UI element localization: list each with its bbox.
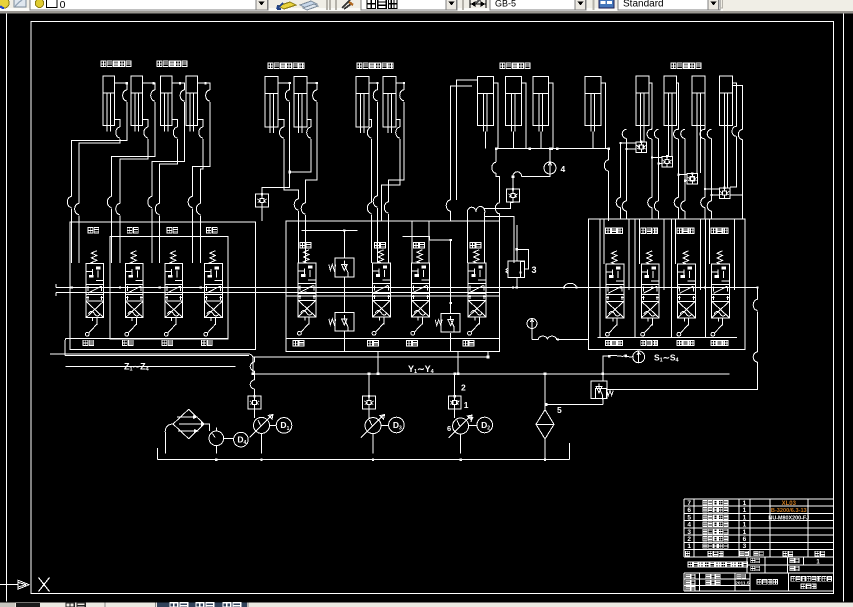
parts row 2 name	[703, 536, 728, 541]
wire	[659, 163, 662, 165]
svg-text:1: 1	[743, 514, 747, 521]
wire	[172, 83, 185, 90]
toolbar light band	[0, 8, 723, 11]
toolbar icon: layer previous	[300, 1, 317, 8]
filter F5	[536, 410, 554, 439]
svg-text:1: 1	[743, 500, 747, 507]
layer combo box	[30, 0, 268, 10]
wire	[499, 214, 501, 263]
pilot check valve CV4	[662, 156, 673, 167]
toolbar separator	[462, 0, 464, 10]
wire	[454, 374, 456, 397]
label group5 clamp cylinder	[500, 63, 530, 69]
wire	[368, 409, 370, 419]
wire	[305, 215, 307, 263]
school name	[791, 577, 832, 582]
label valve V2 bottom	[122, 340, 133, 345]
wire curled drop to pump1 check	[254, 357, 256, 362]
left box lower double line	[50, 353, 249, 355]
wire	[711, 211, 713, 219]
label valve V3 top	[167, 228, 178, 233]
svg-text:6: 6	[687, 507, 691, 514]
cylinder group5 CYL9	[477, 77, 493, 132]
pump P4 fixed	[209, 431, 224, 446]
wire	[78, 216, 80, 264]
wire	[484, 132, 486, 149]
layer combo dropdown arrow	[256, 0, 268, 10]
wire	[278, 83, 290, 90]
wire	[641, 132, 644, 142]
wire	[120, 139, 148, 204]
wire	[191, 209, 193, 264]
wire	[388, 214, 390, 263]
valve V6	[378, 250, 384, 263]
svg-text:4: 4	[244, 440, 247, 446]
wire	[262, 425, 277, 453]
wire	[704, 139, 706, 189]
svg-text:6: 6	[447, 424, 451, 433]
wire	[79, 139, 120, 204]
motor M3 D2	[477, 417, 493, 433]
wire bypass loop	[517, 249, 529, 269]
toolbar icon: table style	[599, 0, 614, 8]
wire	[724, 132, 727, 188]
wire right margin 2	[732, 86, 742, 130]
gauge G6 lower	[527, 319, 537, 329]
svg-text:NU-M80X200-FJ: NU-M80X200-FJ	[768, 515, 809, 521]
svg-text:2: 2	[461, 383, 466, 393]
wire	[521, 83, 526, 149]
label valve V12 top	[711, 228, 728, 233]
svg-text:2011.5: 2011.5	[735, 580, 750, 586]
valve manifold inner box B1a	[110, 237, 228, 339]
wire	[512, 132, 514, 149]
wire hose	[532, 336, 558, 339]
cylinder group2 CYL4	[186, 76, 198, 131]
wire	[711, 139, 713, 202]
wire	[679, 174, 688, 176]
layout tabs	[157, 603, 247, 607]
label valve V5 bottom	[293, 341, 304, 346]
middle box return line	[286, 338, 500, 340]
pilot check valve CV3	[636, 142, 647, 153]
wire	[160, 139, 178, 204]
tab bar nav buttons	[0, 603, 15, 607]
cylinder group3 CYL5	[265, 77, 278, 133]
wire	[651, 158, 653, 198]
cooler arrows	[177, 417, 201, 431]
wire	[546, 398, 603, 404]
svg-text:1: 1	[464, 400, 469, 410]
group5 left port risers	[456, 80, 477, 200]
wire	[111, 209, 113, 264]
toolbar background	[0, 0, 853, 11]
wire	[114, 83, 127, 90]
tank line	[158, 443, 570, 459]
pilot relief valve 3 body	[508, 261, 525, 277]
valve V12	[717, 251, 723, 264]
title block title area	[684, 557, 834, 573]
valve V3	[170, 251, 176, 264]
label group6 lift cylinder	[671, 63, 701, 69]
gauge G4	[544, 162, 556, 174]
toolbar separator	[593, 0, 595, 10]
label valve V5 top	[300, 243, 311, 248]
toolbar icon: dim style	[470, 0, 486, 8]
bottom tab bar background	[0, 603, 853, 607]
cylinder group6 CYL16	[720, 76, 733, 132]
svg-text:3: 3	[687, 529, 691, 536]
wire	[730, 140, 743, 196]
wire relief feeds	[302, 231, 451, 352]
pilot relief valve 3 spring	[506, 268, 508, 273]
wire	[467, 212, 484, 263]
pilot check valve CV2	[507, 189, 520, 202]
wire	[487, 351, 489, 357]
wire	[216, 439, 233, 454]
wire	[757, 311, 759, 352]
svg-text:4: 4	[687, 522, 691, 529]
label valve V1 top	[88, 228, 99, 233]
label valve V9 top	[606, 228, 623, 233]
pressure bus line	[56, 287, 758, 289]
wire	[522, 174, 551, 177]
svg-text:1: 1	[687, 543, 691, 550]
wire	[371, 215, 373, 263]
wire	[114, 119, 120, 127]
wire	[651, 139, 653, 158]
wire	[382, 139, 400, 221]
valve V5	[304, 250, 310, 263]
text style combo	[361, 0, 457, 10]
valve V8	[474, 250, 480, 263]
motor M4 D4	[234, 432, 249, 447]
wire	[373, 425, 389, 453]
toolbar icon: freeze	[14, 0, 26, 7]
label group1 transverse cylinder	[101, 61, 131, 67]
wire	[620, 143, 622, 198]
cylinder group1 CYL2	[131, 76, 143, 131]
wire	[677, 83, 679, 129]
wire gauge4 stem	[549, 149, 551, 162]
svg-text:2: 2	[687, 536, 691, 543]
cylinder group5 CYL12	[585, 77, 601, 132]
pump P2 variable	[365, 418, 381, 434]
parts row 6 name	[703, 508, 728, 513]
wire	[261, 207, 263, 221]
wire hose	[753, 352, 757, 362]
wire	[112, 102, 155, 197]
model tab label	[66, 603, 85, 607]
wire	[152, 102, 184, 197]
wire	[621, 142, 637, 144]
pump P3 variable	[453, 418, 469, 434]
svg-text:3: 3	[743, 543, 747, 550]
wire	[389, 102, 404, 202]
cylinder group5 CYL11	[533, 77, 549, 132]
wire	[446, 86, 472, 221]
sheet left edge	[5, 14, 7, 602]
svg-text:4: 4	[561, 164, 566, 174]
wire	[371, 139, 373, 203]
title block small cells text	[751, 558, 760, 562]
title block bottom area	[684, 573, 834, 591]
toolbar icon: layer on bulb	[0, 0, 9, 8]
svg-text:1: 1	[743, 507, 747, 514]
label valve V4 top	[206, 228, 217, 233]
valve V11	[683, 251, 689, 264]
sheet right edge	[842, 14, 844, 602]
wire	[396, 119, 400, 127]
wire	[606, 362, 757, 390]
toolbar panel edge	[720, 0, 723, 8]
wire	[652, 157, 662, 159]
label valve V2 top	[127, 228, 138, 233]
wire	[705, 188, 719, 190]
svg-text:B-3200/6.3-13: B-3200/6.3-13	[771, 508, 807, 514]
UCS icon X label	[39, 578, 50, 592]
wire	[368, 374, 370, 397]
svg-text:5: 5	[687, 514, 691, 521]
valve V4	[210, 251, 216, 264]
wire	[290, 139, 311, 172]
wire	[544, 374, 546, 460]
svg-text:5: 5	[557, 405, 562, 415]
cylinder group4 CYL8	[383, 77, 396, 133]
label valve V11 top	[677, 228, 694, 233]
table style combo	[618, 0, 720, 10]
relief valve RV2	[335, 313, 354, 332]
valve V10	[647, 251, 653, 264]
wire	[200, 216, 202, 264]
title text	[688, 562, 747, 567]
relief valve RV3	[441, 313, 460, 332]
check valve square CKP1	[248, 396, 261, 409]
wire hose	[681, 129, 685, 138]
wire	[65, 355, 249, 357]
toolbar icon: text style brush	[342, 0, 351, 9]
wire	[516, 225, 518, 288]
pilot relief valve 3 inner	[520, 262, 524, 278]
wire	[658, 139, 660, 202]
dim style combo	[490, 0, 586, 10]
cylinder group1 CYL1	[103, 76, 115, 131]
wire	[262, 102, 290, 194]
wire	[685, 180, 687, 182]
pilot check valve CV5	[687, 173, 698, 184]
wire	[678, 139, 680, 175]
toolbar separator grips	[327, 0, 336, 10]
svg-text:2: 2	[487, 426, 490, 432]
wire	[704, 208, 706, 220]
valve V1	[91, 251, 97, 264]
wire	[603, 356, 610, 374]
label valve V10 top	[641, 228, 658, 233]
wire	[602, 374, 604, 381]
valve V7	[417, 250, 423, 263]
wire	[592, 132, 594, 149]
wire	[669, 132, 672, 157]
label group2 longitudinal cylinder	[157, 61, 187, 67]
wire	[307, 119, 311, 127]
wire	[495, 149, 497, 163]
wire	[608, 171, 610, 221]
right box port verticals	[600, 219, 629, 338]
check valve square CKP3	[448, 396, 461, 409]
wire	[369, 119, 372, 127]
pilot check valve CV1	[256, 194, 269, 207]
wire	[457, 351, 459, 374]
wire	[119, 216, 121, 264]
wire box1 bottom left hook	[65, 339, 66, 356]
cylinder group4 CYL7	[356, 77, 369, 133]
bus bridge hose	[564, 283, 576, 287]
wire	[71, 209, 73, 264]
cylinder group6 CYL13	[636, 76, 649, 132]
svg-text:1: 1	[287, 426, 290, 432]
bridge hose left	[467, 206, 485, 212]
label valve V1 bottom	[83, 340, 94, 345]
wire	[684, 211, 686, 219]
pilot bus line	[286, 295, 500, 297]
wire	[651, 208, 653, 220]
parts row 1 name	[703, 544, 728, 549]
wire	[531, 328, 533, 339]
wire	[66, 365, 236, 367]
wire hose	[513, 172, 522, 177]
bus line lower B	[253, 373, 730, 375]
svg-text:XL03: XL03	[782, 501, 797, 507]
label group4 side prop cylinder	[357, 63, 393, 69]
wire	[609, 355, 625, 356]
wire	[627, 148, 637, 150]
wire	[712, 194, 720, 196]
wire	[601, 83, 606, 149]
wire	[454, 409, 456, 419]
bottom rows labels	[686, 574, 695, 578]
check valve square CKP2	[363, 396, 376, 409]
svg-text:3: 3	[399, 426, 402, 432]
UCS icon X axis	[0, 580, 29, 589]
wire	[649, 83, 652, 129]
wire	[697, 132, 700, 174]
label valve V4 bottom	[201, 340, 212, 345]
cylinder group6 CYL14	[664, 76, 677, 132]
wire	[678, 175, 680, 198]
wire	[72, 102, 127, 197]
junction dots	[126, 82, 128, 84]
cylinder group6 CYL15	[692, 76, 705, 132]
label valve V6 top	[375, 243, 386, 248]
label valve V7 top	[413, 243, 424, 248]
wire	[284, 139, 299, 199]
wire	[158, 432, 166, 460]
valve manifold box B3	[589, 219, 745, 350]
wire	[549, 83, 554, 149]
label valve V3 bottom	[162, 340, 173, 345]
wire	[742, 195, 744, 219]
wire	[142, 119, 148, 127]
cooler diamond	[173, 409, 204, 438]
cylinder group5 CYL10	[505, 77, 521, 132]
label valve V6 bottom	[368, 341, 379, 346]
svg-text:GB-5: GB-5	[495, 0, 516, 9]
wire	[558, 339, 589, 341]
wire	[626, 139, 628, 202]
wire	[461, 425, 477, 453]
wire	[377, 102, 379, 196]
wire hook to lower bus	[249, 354, 254, 374]
wire	[298, 211, 300, 263]
title block parts table	[684, 499, 834, 557]
label valve V12 bottom	[711, 340, 728, 345]
svg-text:7: 7	[470, 415, 474, 424]
label group3 main prop cylinder	[268, 63, 304, 69]
wire	[540, 132, 542, 149]
label valve V11 bottom	[677, 340, 694, 345]
wire	[496, 173, 500, 203]
bus left end stubs	[55, 284, 57, 296]
wire	[377, 208, 379, 263]
wire	[306, 102, 317, 203]
svg-text:3: 3	[532, 265, 537, 275]
wire	[704, 83, 706, 129]
valve V2	[131, 251, 137, 264]
wire	[396, 83, 404, 90]
svg-text:1: 1	[743, 529, 747, 536]
wire	[254, 409, 256, 419]
parts row 7 name	[703, 501, 728, 506]
svg-text:Standard: Standard	[623, 0, 664, 10]
wire	[678, 208, 680, 220]
wire	[192, 102, 210, 197]
parts row 3 name	[703, 529, 728, 534]
parts row 4 name	[703, 522, 728, 527]
wire	[201, 139, 203, 204]
wire	[369, 83, 378, 90]
wire cooler left hose	[165, 424, 173, 432]
valve manifold box B2	[286, 221, 500, 351]
svg-text:7: 7	[687, 500, 691, 507]
cylinder group3 CYL6	[294, 77, 307, 133]
valve V9	[612, 251, 618, 264]
wire hose	[654, 129, 658, 138]
wire right margin	[732, 83, 736, 126]
wire	[626, 356, 633, 359]
wire	[159, 216, 161, 264]
wire	[684, 139, 686, 202]
wire	[608, 149, 610, 160]
wire	[142, 83, 155, 90]
label valve V8 bottom	[463, 341, 474, 346]
wire	[485, 177, 514, 263]
wire	[172, 119, 178, 127]
pilot check valve CV6	[719, 188, 730, 199]
wire	[377, 351, 379, 374]
wire	[730, 136, 736, 187]
relief valve RV5	[591, 381, 607, 398]
label valve V9 bottom	[606, 340, 623, 345]
label valve V8 top	[470, 243, 481, 248]
cylinder group2 CYL3	[160, 76, 172, 131]
wire	[197, 83, 210, 90]
label valve V10 bottom	[641, 340, 658, 345]
wire hose	[707, 129, 711, 138]
wire	[278, 119, 284, 127]
bus line lower A	[253, 356, 488, 358]
motor M2 D3	[389, 417, 405, 433]
valve V7 port pair	[412, 221, 429, 263]
